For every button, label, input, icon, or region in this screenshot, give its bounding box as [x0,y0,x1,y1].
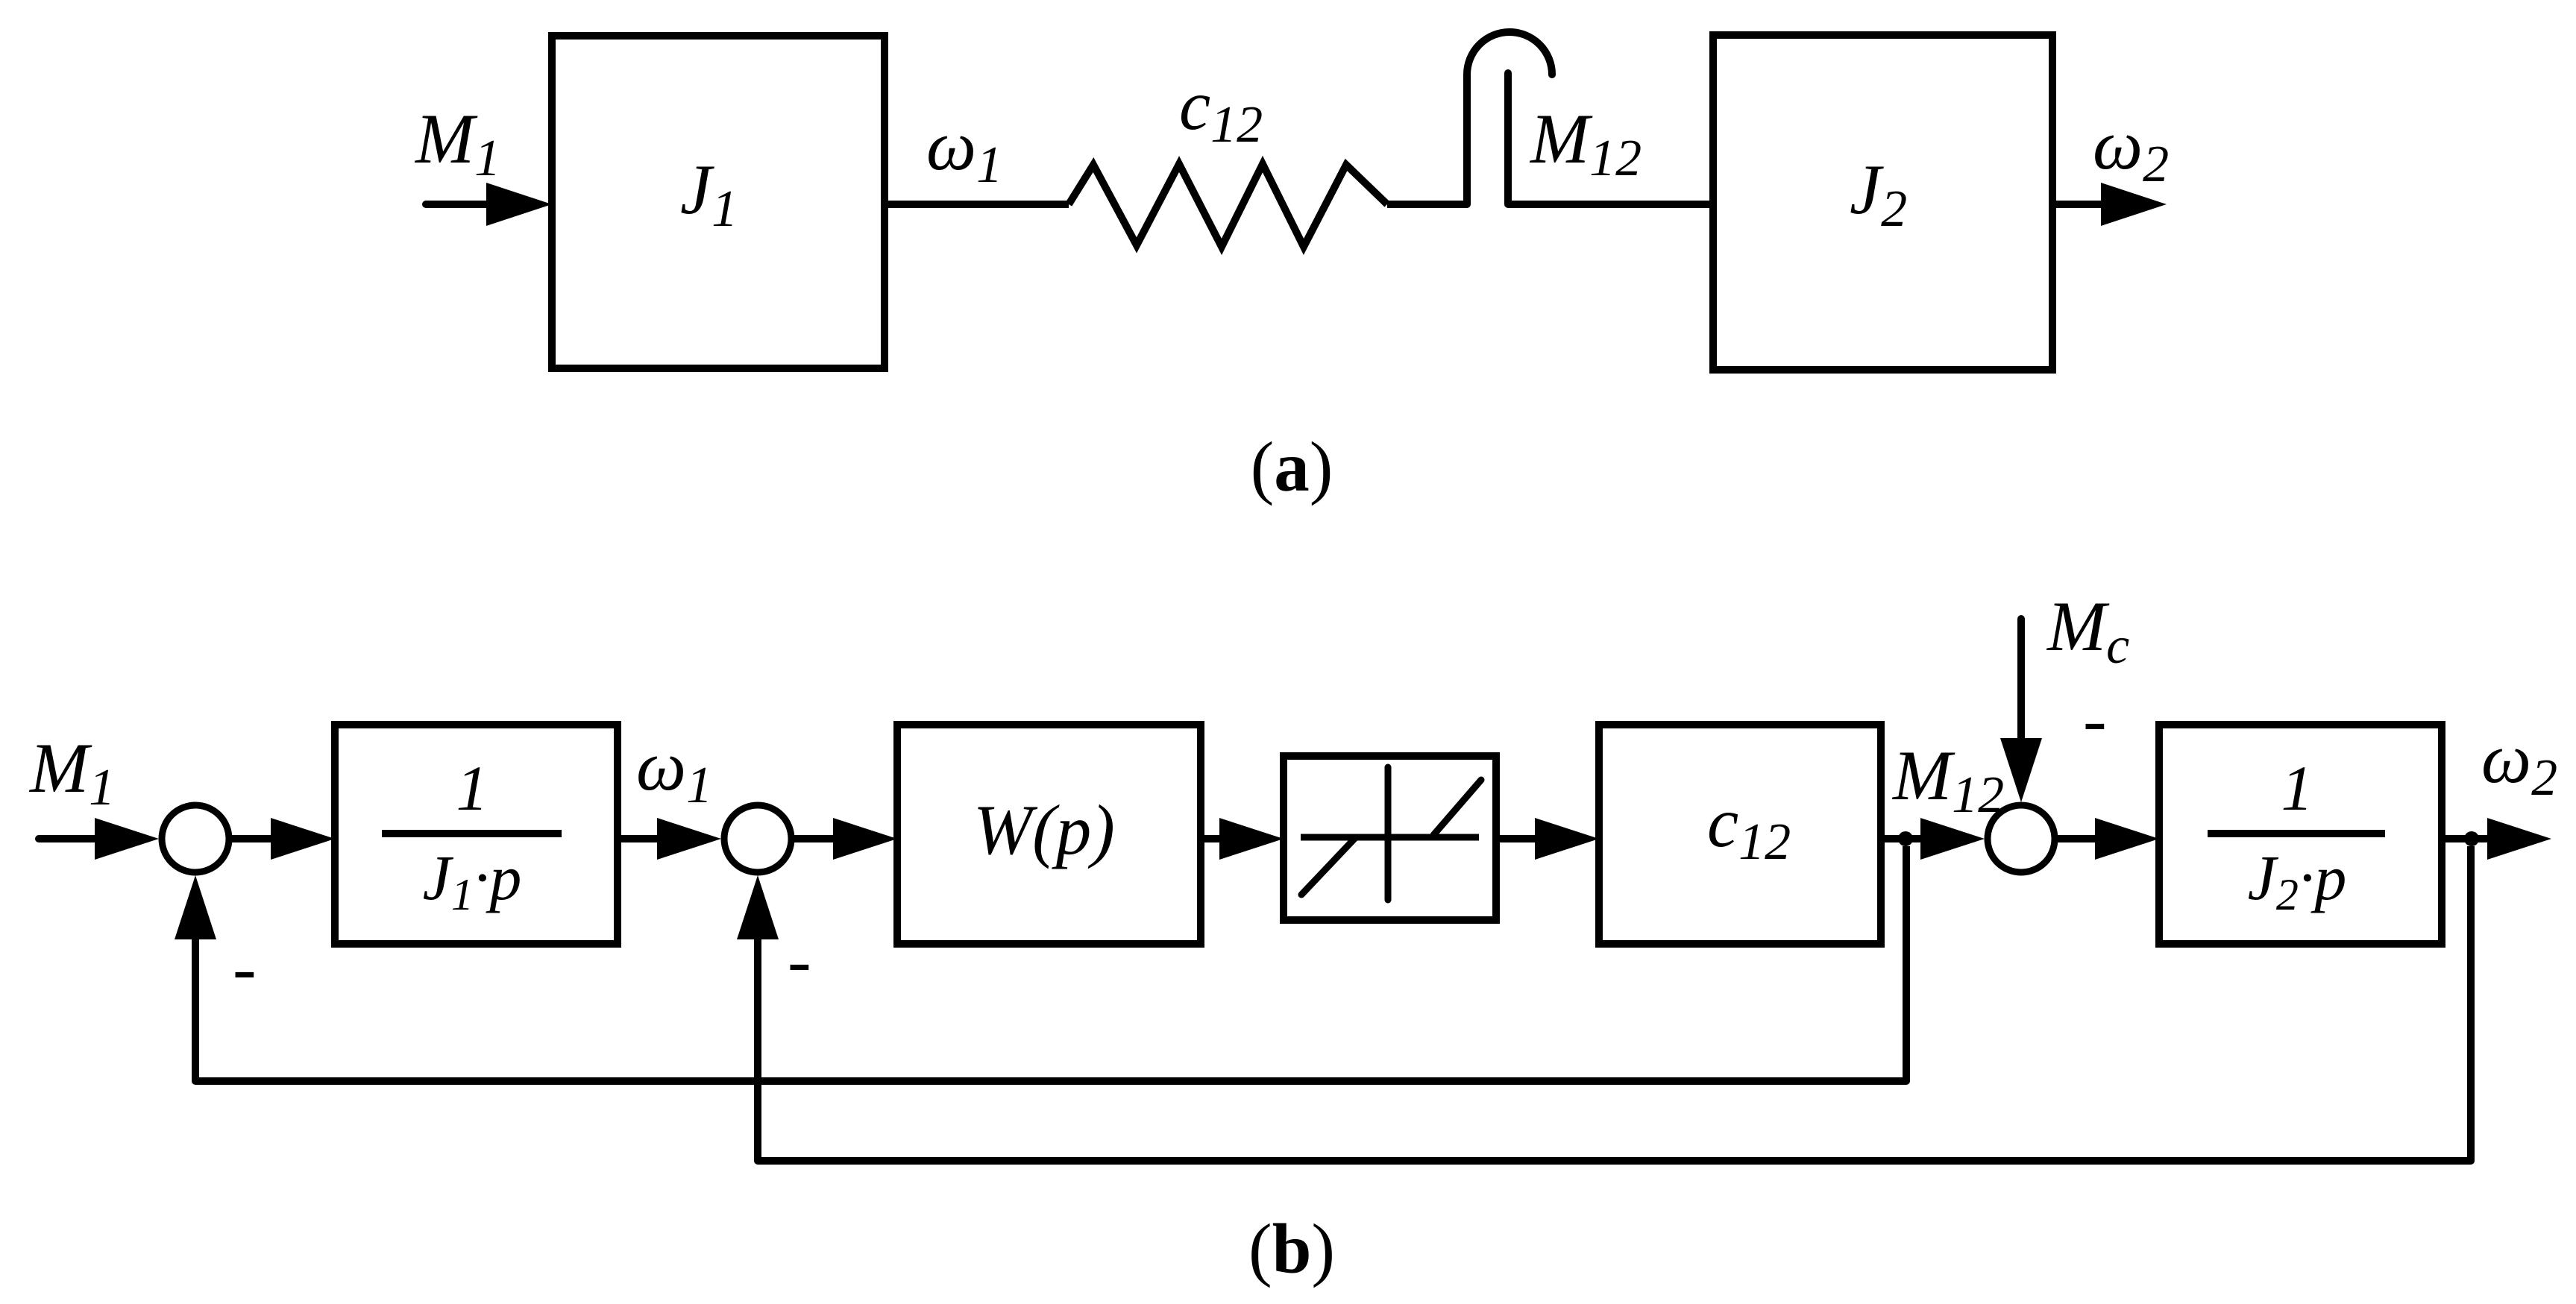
svg-text:-: - [788,921,811,1000]
block 1/(J1 p) [335,725,618,944]
block c12 [1599,725,1881,944]
deadzone lower diagonal [1301,838,1355,895]
label W(p) [973,790,1115,869]
wire spring to backlash fork [1387,201,1467,208]
label Mc [2046,587,2129,675]
summing node S2 [724,805,791,872]
svg-text:-: - [2083,680,2107,759]
label omega2 [2093,105,2169,193]
summing node S1 [162,805,229,872]
denominator J2*p of block [2248,842,2347,919]
arrow S2 to block W(p) [794,818,897,860]
label M12 [1891,736,2004,824]
label J1 [680,150,738,238]
block 1/(J2 p) [2159,725,2442,944]
label c12 spring stiffness [1179,66,1263,154]
label M12 shaft torque [1529,99,1642,187]
label M1 input [28,728,115,816]
arrow S3 to block 1/J2p [2058,818,2159,860]
label omega1 [636,726,712,814]
arrow deadzone to block c12 [1496,818,1599,860]
Mc disturbance input arrow [2000,619,2042,802]
numerator 1 of block 1 [456,752,489,824]
label omega1 [926,106,1002,194]
arrow M1 into summing node S1 [39,818,159,860]
deadzone horizontal axis [1301,834,1479,841]
node M12 junction dot [1898,831,1913,846]
label omega2 output [2481,719,2557,807]
block J2 [1713,35,2052,370]
block J1 [552,36,885,368]
minus sign at S3 [2083,680,2107,759]
output node dot [2464,831,2479,846]
caption (b) [1248,1209,1335,1288]
wire c12 to summing node S3 [1881,835,1922,842]
arrow omega2 output [2487,818,2551,860]
deadzone nonlinearity block [1284,756,1496,920]
svg-text:W(p): W(p) [973,790,1115,869]
arrow W(p) to deadzone block [1201,818,1284,860]
label c12 in block [1707,783,1791,871]
arrowhead feedback into S2 [737,875,779,939]
deadzone vertical axis [1385,767,1392,900]
svg-text:-: - [233,928,257,1007]
fraction bar of 1/(J1 p) [382,830,562,837]
arrow M1 into J1 [426,183,552,226]
arrowhead feedback into S1 [175,875,216,939]
output wire with node [2442,835,2491,842]
feedback wire omega2 to S2 [758,846,2471,1161]
label J2 [1850,150,1907,238]
caption (a) [1251,427,1333,506]
arrow S1 to block 1/J1p [232,818,335,860]
label M1 input torque [414,99,500,187]
arrow omega2 output [2052,183,2167,226]
wire backlash to J2 [1508,201,1713,208]
svg-text:1: 1 [2281,752,2313,824]
feedback wire M12 to S1 [195,846,1906,1081]
numerator 1 of block 1/(J2 p) [2281,752,2313,824]
deadzone upper diagonal [1433,780,1481,835]
backlash fork (left shaft hook) [1467,32,1552,204]
denominator J1*p of block 1 [423,842,522,919]
arrow block1 to summing node S2 [618,818,721,860]
backlash pin (right shaft) [1504,73,1512,204]
minus sign at S1 [233,928,257,1007]
spring c12 (zigzag) [1069,164,1387,247]
fraction bar of 1/(J2 p) [2208,830,2385,837]
svg-text:(b): (b) [1248,1209,1335,1288]
svg-text:1: 1 [456,752,489,824]
summing node S3 [1988,805,2055,872]
block W(p) [897,725,1201,944]
svg-text:(a): (a) [1251,427,1333,506]
wire omega1 (J1 to spring) [885,201,1069,208]
minus sign at S2 [788,921,811,1000]
arrow into summing node S3 [1920,818,1985,860]
